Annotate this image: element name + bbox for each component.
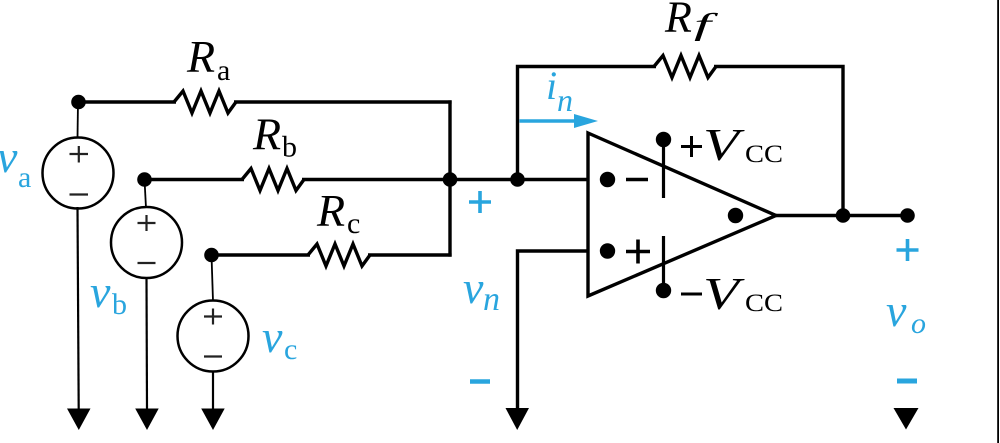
node B	[137, 172, 152, 187]
current arrow in	[520, 114, 599, 128]
svg-text:c: c	[347, 207, 360, 240]
label vn	[463, 262, 500, 318]
svg-text:R: R	[252, 109, 281, 160]
svg-text:f: f	[694, 7, 720, 42]
wire from Ra to junction column	[234, 100, 452, 103]
non-inverting input plus sign	[626, 240, 650, 264]
svg-text:a: a	[18, 161, 31, 194]
wire node B down to vb	[145, 180, 147, 209]
node C	[204, 248, 219, 263]
+VCC pin dot	[656, 132, 671, 147]
wire vc down to ground arrow	[212, 372, 214, 410]
ground arrow under vc	[201, 409, 225, 431]
svg-text:V: V	[703, 119, 745, 170]
label Rf	[664, 0, 720, 42]
minus sign below vo	[897, 379, 917, 384]
ground arrow under va	[67, 409, 91, 431]
inverting node vn	[510, 172, 525, 187]
-VCC pin dot	[656, 283, 671, 298]
ground arrow under vb	[135, 409, 159, 431]
svg-text:n: n	[483, 281, 500, 318]
output reference ground arrowhead	[894, 408, 919, 430]
svg-text:v: v	[463, 262, 484, 313]
voltage source vc	[178, 301, 249, 372]
inverting input pin dot	[600, 172, 615, 187]
label Rb	[252, 109, 297, 164]
svg-text:CC: CC	[745, 141, 783, 168]
minus sign below vn	[470, 379, 490, 384]
svg-text:v: v	[262, 311, 283, 362]
feedback-output junction node	[836, 208, 851, 223]
svg-text:R: R	[316, 185, 345, 236]
label Rc	[316, 185, 360, 240]
non-inverting input pin dot	[600, 243, 615, 258]
svg-text:b: b	[112, 288, 127, 321]
wire op-amp output	[776, 214, 908, 217]
inverting input minus sign	[626, 178, 648, 182]
svg-text:v: v	[90, 266, 111, 317]
label vc	[262, 311, 297, 366]
output pin dot	[728, 208, 743, 223]
wire from Rf down to output	[714, 67, 843, 216]
wire node C down to vc	[212, 255, 214, 301]
wire from node A to resistor Ra	[79, 100, 177, 103]
resistor Ra	[174, 91, 236, 113]
svg-text:b: b	[282, 131, 297, 164]
svg-text:i: i	[546, 63, 557, 108]
label vb	[90, 266, 127, 321]
-VCC pin lead	[662, 236, 665, 291]
ground arrow below non-inverting wire	[506, 408, 530, 430]
wire from node C to resistor Rc	[212, 253, 311, 256]
page column rule at right edge	[997, 0, 999, 443]
label va	[0, 131, 31, 194]
svg-text:n: n	[557, 82, 573, 118]
plus sign at junction (vn polarity)	[469, 191, 491, 213]
label in current	[546, 63, 573, 118]
svg-text:v: v	[886, 285, 907, 336]
svg-text:c: c	[284, 333, 297, 366]
+VCC pin lead	[662, 140, 665, 199]
junction node	[443, 172, 458, 187]
wire from Rc to junction column	[368, 253, 452, 256]
svg-text:V: V	[703, 268, 745, 319]
wire from inverting node up and right to Rf	[518, 67, 657, 182]
resistor Rf	[654, 56, 716, 78]
svg-text:R: R	[664, 0, 692, 42]
label -VCC	[681, 268, 783, 319]
node A	[71, 95, 86, 110]
wire node A down to va	[77, 102, 80, 138]
wire from Rb to inverting input	[302, 178, 588, 181]
svg-text:R: R	[186, 31, 215, 82]
wire from node B to resistor Rb	[145, 178, 245, 181]
voltage source va	[43, 138, 114, 209]
output terminal node	[900, 208, 915, 223]
svg-text:v: v	[0, 131, 18, 182]
svg-text:CC: CC	[745, 290, 783, 317]
wire va down to ground arrow	[78, 207, 79, 410]
wire junction column	[448, 100, 451, 256]
label vo	[886, 285, 926, 340]
label +VCC	[681, 119, 783, 170]
wire non-inverting input down to ground	[518, 251, 589, 410]
op-amp U1	[588, 133, 776, 296]
wire vb down to ground arrow	[145, 278, 148, 410]
label Ra	[186, 31, 230, 87]
svg-text:o: o	[911, 307, 926, 340]
plus sign at output (vo polarity)	[897, 239, 919, 261]
svg-text:a: a	[217, 54, 230, 87]
resistor Rc	[308, 244, 370, 266]
voltage source vb	[111, 207, 182, 278]
resistor Rb	[242, 169, 304, 191]
